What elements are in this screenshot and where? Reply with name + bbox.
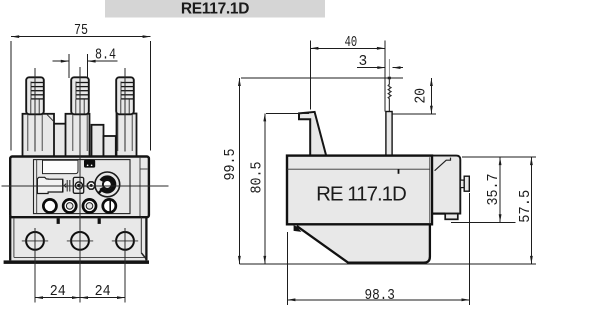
svg-text:24: 24 [95,284,111,300]
svg-text:8.4: 8.4 [95,47,116,63]
svg-text:98.3: 98.3 [364,288,395,304]
svg-text:24: 24 [50,284,66,300]
svg-text:35.7: 35.7 [486,174,502,206]
svg-text:3: 3 [358,54,367,70]
svg-text:40: 40 [345,35,358,51]
svg-text:RE117.1D: RE117.1D [181,0,249,17]
svg-text:RE 117.1D: RE 117.1D [316,183,406,206]
svg-text:75: 75 [74,23,88,39]
svg-text:57.5: 57.5 [518,190,534,223]
svg-text:80.5: 80.5 [250,162,266,194]
svg-text:99.5: 99.5 [223,149,239,181]
svg-text:20: 20 [413,88,429,104]
